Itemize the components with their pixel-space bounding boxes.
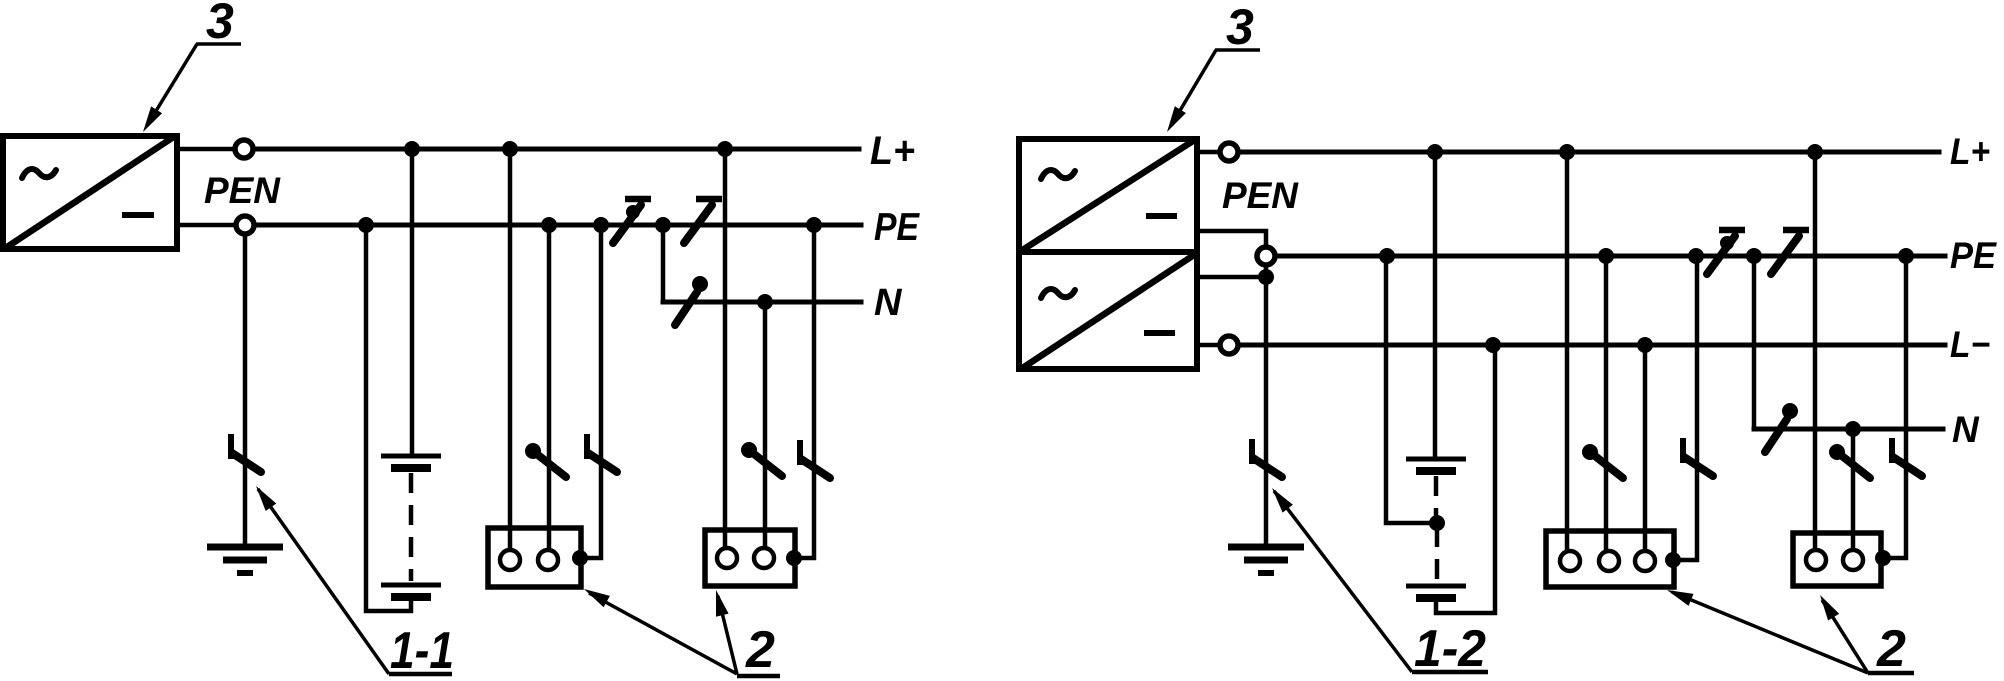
- label 3 (left) underline: [196, 42, 241, 46]
- junction N/socket-2 (left): [757, 294, 773, 310]
- terminal circle L+ (right): [1220, 143, 1238, 161]
- svg-text:L−: L−: [1950, 324, 1990, 365]
- battery midpoint earthing tap to PE (right): [1386, 256, 1437, 523]
- svg-text:3: 3: [206, 0, 234, 49]
- socket-1 earth junction (left): [572, 550, 588, 566]
- label 2 arrowhead socket-2 (right): [1820, 595, 1839, 621]
- svg-text:PEN: PEN: [204, 170, 281, 211]
- battery return wire to PE (left): [366, 225, 411, 611]
- junction N/socket-2 (right): [1845, 421, 1861, 437]
- junction PE/N tap (right): [1746, 248, 1762, 264]
- label 3 (right) underline: [1215, 48, 1260, 52]
- label 2 underline (right): [1868, 671, 1914, 676]
- svg-text:N: N: [1952, 409, 1980, 450]
- wire N tap drop (left): [661, 225, 666, 302]
- socket-2 wire from L+ (left): [723, 149, 728, 552]
- battery cell interconnection dashed (left): [409, 473, 414, 581]
- link in PE conductor left of tap (left): [613, 199, 651, 243]
- socket-2 link (left): [800, 440, 830, 478]
- terminal circle L+ (left): [235, 140, 253, 158]
- link in PE conductor right of tap (right): [1771, 230, 1809, 274]
- socket-2 switch (left): [741, 442, 782, 476]
- label 1-1 arrowhead: [256, 486, 276, 511]
- socket-1 contact b (left): [538, 550, 558, 570]
- socket-1 switch (left): [525, 443, 566, 477]
- label 2 arrowhead socket-1 (right): [1667, 590, 1694, 606]
- ground electrode (right): [1228, 547, 1304, 573]
- svg-text:N: N: [874, 282, 903, 324]
- socket-2 body (right): [1793, 533, 1881, 586]
- junction PEN midpoint (right): [1258, 269, 1274, 285]
- label 2 leader to socket-1 (right): [1672, 592, 1868, 673]
- socket-1 earth junction (right): [1665, 552, 1681, 568]
- socket-2 body (left): [705, 530, 795, 586]
- socket-2 earth junction (right): [1875, 550, 1891, 566]
- label 1-2 arrowhead: [1272, 488, 1293, 513]
- socket-2 contact a (left): [717, 548, 737, 568]
- socket-2 link (right): [1892, 438, 1922, 476]
- label 1-2 underline: [1412, 670, 1488, 675]
- wire bus N (left): [663, 300, 861, 305]
- earthing conductor (right): [1264, 266, 1269, 547]
- terminal circle PEN (right): [1257, 247, 1275, 265]
- socket-1 wire from L+ (left): [508, 149, 513, 552]
- wire N tap drop (right): [1752, 256, 1757, 429]
- junction L+/battery (right): [1427, 144, 1443, 160]
- junction PE/battery (left): [358, 217, 374, 233]
- link in earthing conductor (right): [1252, 439, 1282, 477]
- svg-text:2: 2: [1876, 620, 1906, 678]
- socket-1 contact b (right): [1599, 551, 1619, 571]
- socket-1 PE link wire (left): [581, 225, 601, 558]
- label 3 (left) arrowhead: [143, 106, 162, 132]
- socket-2 contact b (right): [1843, 550, 1863, 570]
- label 2 leader to socket-1 (left): [589, 593, 737, 674]
- terminal circle PEN (left): [236, 216, 254, 234]
- socket-1 link (left): [587, 434, 617, 472]
- wire bus L+ (right): [1239, 150, 1939, 155]
- junction L+/socket-2 (right): [1807, 144, 1823, 160]
- socket-2 PE link wire (left): [795, 225, 814, 558]
- socket-1 contact c (right): [1635, 551, 1655, 571]
- battery bottom cell (right): [1406, 586, 1466, 598]
- battery top cell (right): [1406, 459, 1466, 471]
- svg-text:L+: L+: [1950, 131, 1990, 172]
- wire PEN stub lower (right): [1197, 275, 1266, 280]
- link in earthing conductor (left): [231, 434, 261, 472]
- wire bus PE (left): [255, 223, 861, 228]
- label 2 arrowhead socket-1 (left): [584, 589, 610, 607]
- svg-text:PE: PE: [874, 206, 920, 249]
- socket-1 wire from L+ (right): [1565, 152, 1570, 553]
- ground electrode (left): [207, 547, 283, 573]
- label 1-1 underline: [389, 672, 452, 677]
- converter 3 (right) bottom box: [1019, 252, 1197, 369]
- label 2 leader to socket-2 (left): [718, 596, 737, 674]
- socket-2 contact a (right): [1806, 550, 1826, 570]
- battery return wire to L- (right): [1436, 345, 1495, 613]
- battery midpoint junction (right): [1429, 515, 1445, 531]
- converter 3 (right) top diagonal: [1024, 141, 1193, 249]
- wire bus L+ (left): [254, 147, 859, 152]
- junction PE/socket-2 link (left): [806, 217, 822, 233]
- junction PE/socket-2 link (right): [1898, 248, 1914, 264]
- socket-2 PE link wire (right): [1882, 256, 1906, 558]
- converter 3 (left) box: [3, 136, 177, 249]
- socket-1 wire from L- (right): [1643, 345, 1648, 553]
- earthing conductor (left): [243, 234, 248, 547]
- label 2 leader to socket-2 (right): [1822, 600, 1868, 673]
- wire L- stub from converter (right): [1197, 343, 1219, 348]
- socket-1 body (left): [488, 528, 581, 587]
- socket-1 body (right): [1546, 531, 1674, 587]
- socket-2 earth junction (left): [786, 550, 802, 566]
- converter 3 (left) DC symbol: [122, 212, 154, 218]
- socket-1 contact a (left): [500, 550, 520, 570]
- converter 3 (left) diagonal: [7, 138, 172, 247]
- junction L-/battery return (right): [1485, 337, 1501, 353]
- socket-1 switch (right): [1582, 444, 1623, 478]
- junction L-/socket-1 (right): [1637, 337, 1653, 353]
- link in PE conductor right of tap (left): [684, 199, 722, 243]
- label 1-1 leader: [258, 489, 389, 674]
- battery dashed link lower (right): [1435, 527, 1440, 581]
- converter 3 (right) bottom AC symbol: [1041, 289, 1075, 298]
- socket-1 link (right): [1683, 438, 1713, 476]
- terminal circle L- (right): [1220, 336, 1238, 354]
- converter 3 (right) top AC symbol: [1041, 170, 1075, 179]
- battery feed from L+ (left): [410, 149, 415, 456]
- wire L+ stub from converter (left): [177, 147, 234, 152]
- junction PE/socket-1 switch (left): [541, 217, 557, 233]
- wire PEN stub from converter (left): [177, 223, 235, 228]
- wire bus PE (right): [1276, 254, 1945, 259]
- junction PE/battery midpoint (right): [1379, 248, 1395, 264]
- wire bus N (right): [1754, 427, 1943, 432]
- converter 3 (right) bottom diagonal: [1024, 255, 1194, 367]
- label 2 underline (left): [737, 674, 780, 679]
- label 1-2 leader: [1274, 491, 1412, 672]
- converter 3 (right) top DC symbol: [1146, 213, 1177, 219]
- junction L+/socket-1 (left): [502, 141, 518, 157]
- junction PE/socket-1 switch (right): [1598, 248, 1614, 264]
- label 3 (left) leader: [148, 44, 197, 124]
- wire L+ stub from converter (right): [1197, 150, 1219, 155]
- label 3 (right) arrowhead: [1167, 106, 1186, 132]
- wire bus L- (right): [1239, 343, 1945, 348]
- converter 3 (right) bottom DC symbol: [1144, 330, 1175, 336]
- battery dashed link upper (right): [1434, 476, 1439, 519]
- junction PE/socket-1 link (left): [593, 217, 609, 233]
- converter 3 (left) AC symbol: [22, 169, 56, 178]
- svg-text:L+: L+: [870, 129, 915, 173]
- junction L+/socket-1 (right): [1559, 144, 1575, 160]
- socket-2 wire from N with switch (left): [763, 302, 768, 552]
- socket-1 wire from PE with switch (left): [547, 225, 552, 552]
- converter 3 (right) top box: [1019, 139, 1197, 252]
- svg-text:PE: PE: [1950, 235, 1997, 276]
- svg-text:1-1: 1-1: [390, 622, 454, 680]
- label 3 (right) leader: [1172, 50, 1216, 124]
- wire PEN stub upper (right): [1197, 231, 1266, 246]
- svg-text:3: 3: [1226, 0, 1254, 55]
- socket-1 contact a (right): [1560, 551, 1580, 571]
- label 2 arrowhead socket-2 (left): [716, 590, 729, 617]
- socket-1 wire from PE with switch (right): [1604, 256, 1609, 553]
- switch in N conductor (left): [675, 276, 708, 325]
- socket-2 contact b (left): [754, 548, 774, 568]
- junction L+/battery (left): [404, 141, 420, 157]
- link in PE conductor left of tap (right): [1707, 230, 1745, 274]
- svg-text:2: 2: [745, 621, 775, 679]
- junction L+/socket-2 (left): [717, 141, 733, 157]
- socket-1 PE link wire (right): [1674, 256, 1697, 560]
- switch in N conductor (right): [1765, 403, 1798, 452]
- battery top cell (left): [381, 456, 441, 468]
- junction PE/N tap (left): [655, 217, 671, 233]
- battery bottom cell (left): [381, 585, 441, 597]
- socket-2 wire from N with switch (right): [1851, 429, 1856, 553]
- svg-text:PEN: PEN: [1222, 175, 1299, 216]
- svg-text:1-2: 1-2: [1414, 620, 1486, 678]
- battery feed from L+ (right): [1433, 152, 1438, 459]
- junction PE/socket-1 link (right): [1688, 248, 1704, 264]
- socket-2 wire from L+ (right): [1813, 152, 1818, 553]
- socket-2 switch (right): [1829, 444, 1870, 478]
